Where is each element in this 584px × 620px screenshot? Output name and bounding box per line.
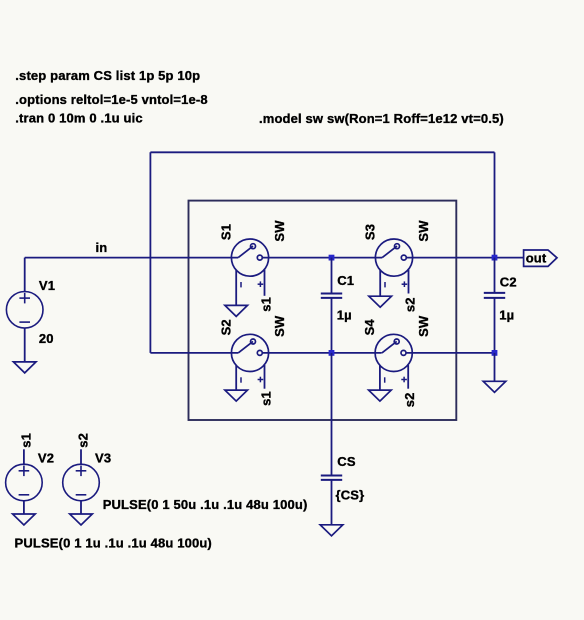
svg-text:C1: C1 bbox=[337, 273, 354, 288]
wire C1 junction down to CS bbox=[331, 353, 333, 476]
svg-text:1µ: 1µ bbox=[499, 308, 514, 323]
capacitor C2 bbox=[484, 293, 505, 298]
SW group outline box bbox=[189, 201, 457, 420]
svg-text:s2: s2 bbox=[402, 392, 417, 407]
svg-text:S3: S3 bbox=[362, 224, 377, 240]
svg-text:.step param CS list 1p 5p 10p: .step param CS list 1p 5p 10p bbox=[15, 68, 200, 83]
node junction C2 bottom bbox=[492, 350, 498, 356]
node junction C1 top bbox=[329, 255, 335, 261]
wire row2 left to S2 bbox=[150, 352, 238, 354]
wire C2 bottom bbox=[494, 298, 496, 353]
wire CS bottom stub bbox=[331, 480, 333, 525]
svg-text:.options reltol=1e-5 vntol=1: .options reltol=1e-5 vntol=1e-8 bbox=[15, 92, 207, 107]
switch S2 minus mark bbox=[240, 377, 242, 382]
switch S2 - control pin wire bbox=[235, 365, 237, 390]
wire outer loop right bbox=[494, 152, 496, 257]
svg-text:CS: CS bbox=[337, 454, 356, 469]
wire V3 bottom stub bbox=[80, 501, 82, 514]
wire row2 S4 to C2 bbox=[406, 352, 495, 354]
wire C2 ground stub bbox=[494, 353, 496, 381]
ground below C2 bbox=[483, 381, 506, 392]
svg-text:V1: V1 bbox=[39, 278, 55, 293]
node junction out bbox=[492, 255, 498, 261]
switch S3 - control pin wire bbox=[379, 270, 381, 297]
svg-text:s2: s2 bbox=[402, 297, 417, 312]
voltage source V2 bbox=[6, 464, 43, 501]
switch S1 body bbox=[231, 239, 268, 276]
switch S1 plus mark bbox=[258, 283, 264, 285]
switch S2 body bbox=[231, 334, 268, 371]
svg-text:.tran 0 10m 0 .1u uic: .tran 0 10m 0 .1u uic bbox=[15, 111, 142, 126]
svg-text:S2: S2 bbox=[218, 319, 233, 335]
node junction C1 bottom bbox=[329, 350, 335, 356]
svg-text:s1: s1 bbox=[258, 297, 273, 312]
svg-text:SW: SW bbox=[416, 315, 431, 337]
switch S1 - control pin wire bbox=[235, 270, 237, 306]
voltage source V1 bbox=[6, 292, 43, 329]
switch S4 - control pin wire bbox=[379, 365, 381, 390]
ground of S2 bbox=[225, 390, 248, 401]
switch S4 body bbox=[375, 334, 412, 371]
svg-text:S1: S1 bbox=[218, 224, 233, 240]
wire outer loop left bbox=[149, 152, 151, 353]
svg-text:20: 20 bbox=[39, 331, 54, 346]
capacitor C1 bbox=[321, 294, 342, 298]
svg-text:V3: V3 bbox=[95, 451, 111, 466]
switch S4 minus mark bbox=[384, 377, 386, 382]
wire C1 top bbox=[331, 258, 333, 294]
switch S3 + control pin wire bbox=[408, 270, 410, 294]
svg-text:SW: SW bbox=[416, 220, 431, 242]
wire row1 S1 to S3 bbox=[262, 257, 382, 259]
svg-text:in: in bbox=[96, 240, 108, 255]
wire V2 top stub bbox=[23, 449, 25, 464]
switch S1 + control pin wire bbox=[264, 270, 266, 296]
ground of V1 bbox=[13, 362, 36, 373]
svg-text:s1: s1 bbox=[258, 391, 273, 406]
svg-text:.model sw sw(Ron=1 Roff=1e12 v: .model sw sw(Ron=1 Roff=1e12 vt=0.5) bbox=[259, 111, 504, 126]
wire C1 bottom bbox=[331, 298, 333, 353]
output port flag out bbox=[524, 250, 557, 266]
svg-text:SW: SW bbox=[272, 315, 287, 337]
wire V1 top stub bbox=[24, 258, 26, 292]
switch S3 plus mark bbox=[402, 283, 408, 285]
svg-text:S4: S4 bbox=[362, 319, 377, 336]
svg-text:s1: s1 bbox=[18, 433, 33, 448]
wire C2 top bbox=[494, 258, 496, 293]
wire outer loop top bbox=[150, 151, 494, 153]
switch S2 plus mark bbox=[258, 379, 264, 381]
ground of S4 bbox=[369, 390, 392, 401]
svg-text:out: out bbox=[526, 251, 547, 266]
svg-text:s2: s2 bbox=[76, 433, 91, 448]
ground of V3 bbox=[70, 514, 93, 525]
switch S3 body bbox=[375, 239, 412, 276]
wire V2 bottom stub bbox=[23, 501, 25, 514]
svg-text:PULSE(0 1 50u .1u .1u 48u 100u: PULSE(0 1 50u .1u .1u 48u 100u) bbox=[103, 497, 308, 512]
svg-text:SW: SW bbox=[272, 220, 287, 242]
wire row1 from V1 to S1 bbox=[25, 257, 239, 259]
ground of S3 bbox=[369, 296, 392, 307]
switch S3 minus mark bbox=[384, 282, 386, 287]
wire row1 S3 to out port bbox=[406, 257, 523, 259]
svg-text:{CS}: {CS} bbox=[336, 487, 365, 502]
svg-text:V2: V2 bbox=[38, 451, 54, 466]
svg-text:PULSE(0 1 1u .1u .1u 48u 100u): PULSE(0 1 1u .1u .1u 48u 100u) bbox=[15, 536, 212, 551]
switch S4 plus mark bbox=[401, 379, 407, 381]
wire V1 bottom stub bbox=[24, 328, 26, 362]
switch S4 + control pin wire bbox=[407, 365, 409, 389]
svg-text:C2: C2 bbox=[500, 275, 517, 290]
wire V3 top stub bbox=[80, 449, 82, 464]
ground of S1 bbox=[225, 305, 248, 316]
svg-text:1µ: 1µ bbox=[337, 308, 352, 323]
ground of V2 bbox=[13, 514, 36, 525]
ground below CS bbox=[320, 525, 343, 536]
switch S1 minus mark bbox=[240, 282, 242, 287]
wire row2 S2 to S4 bbox=[262, 352, 381, 354]
voltage source V3 bbox=[63, 464, 100, 501]
switch S2 + control pin wire bbox=[264, 365, 266, 389]
capacitor CS bbox=[321, 476, 342, 480]
